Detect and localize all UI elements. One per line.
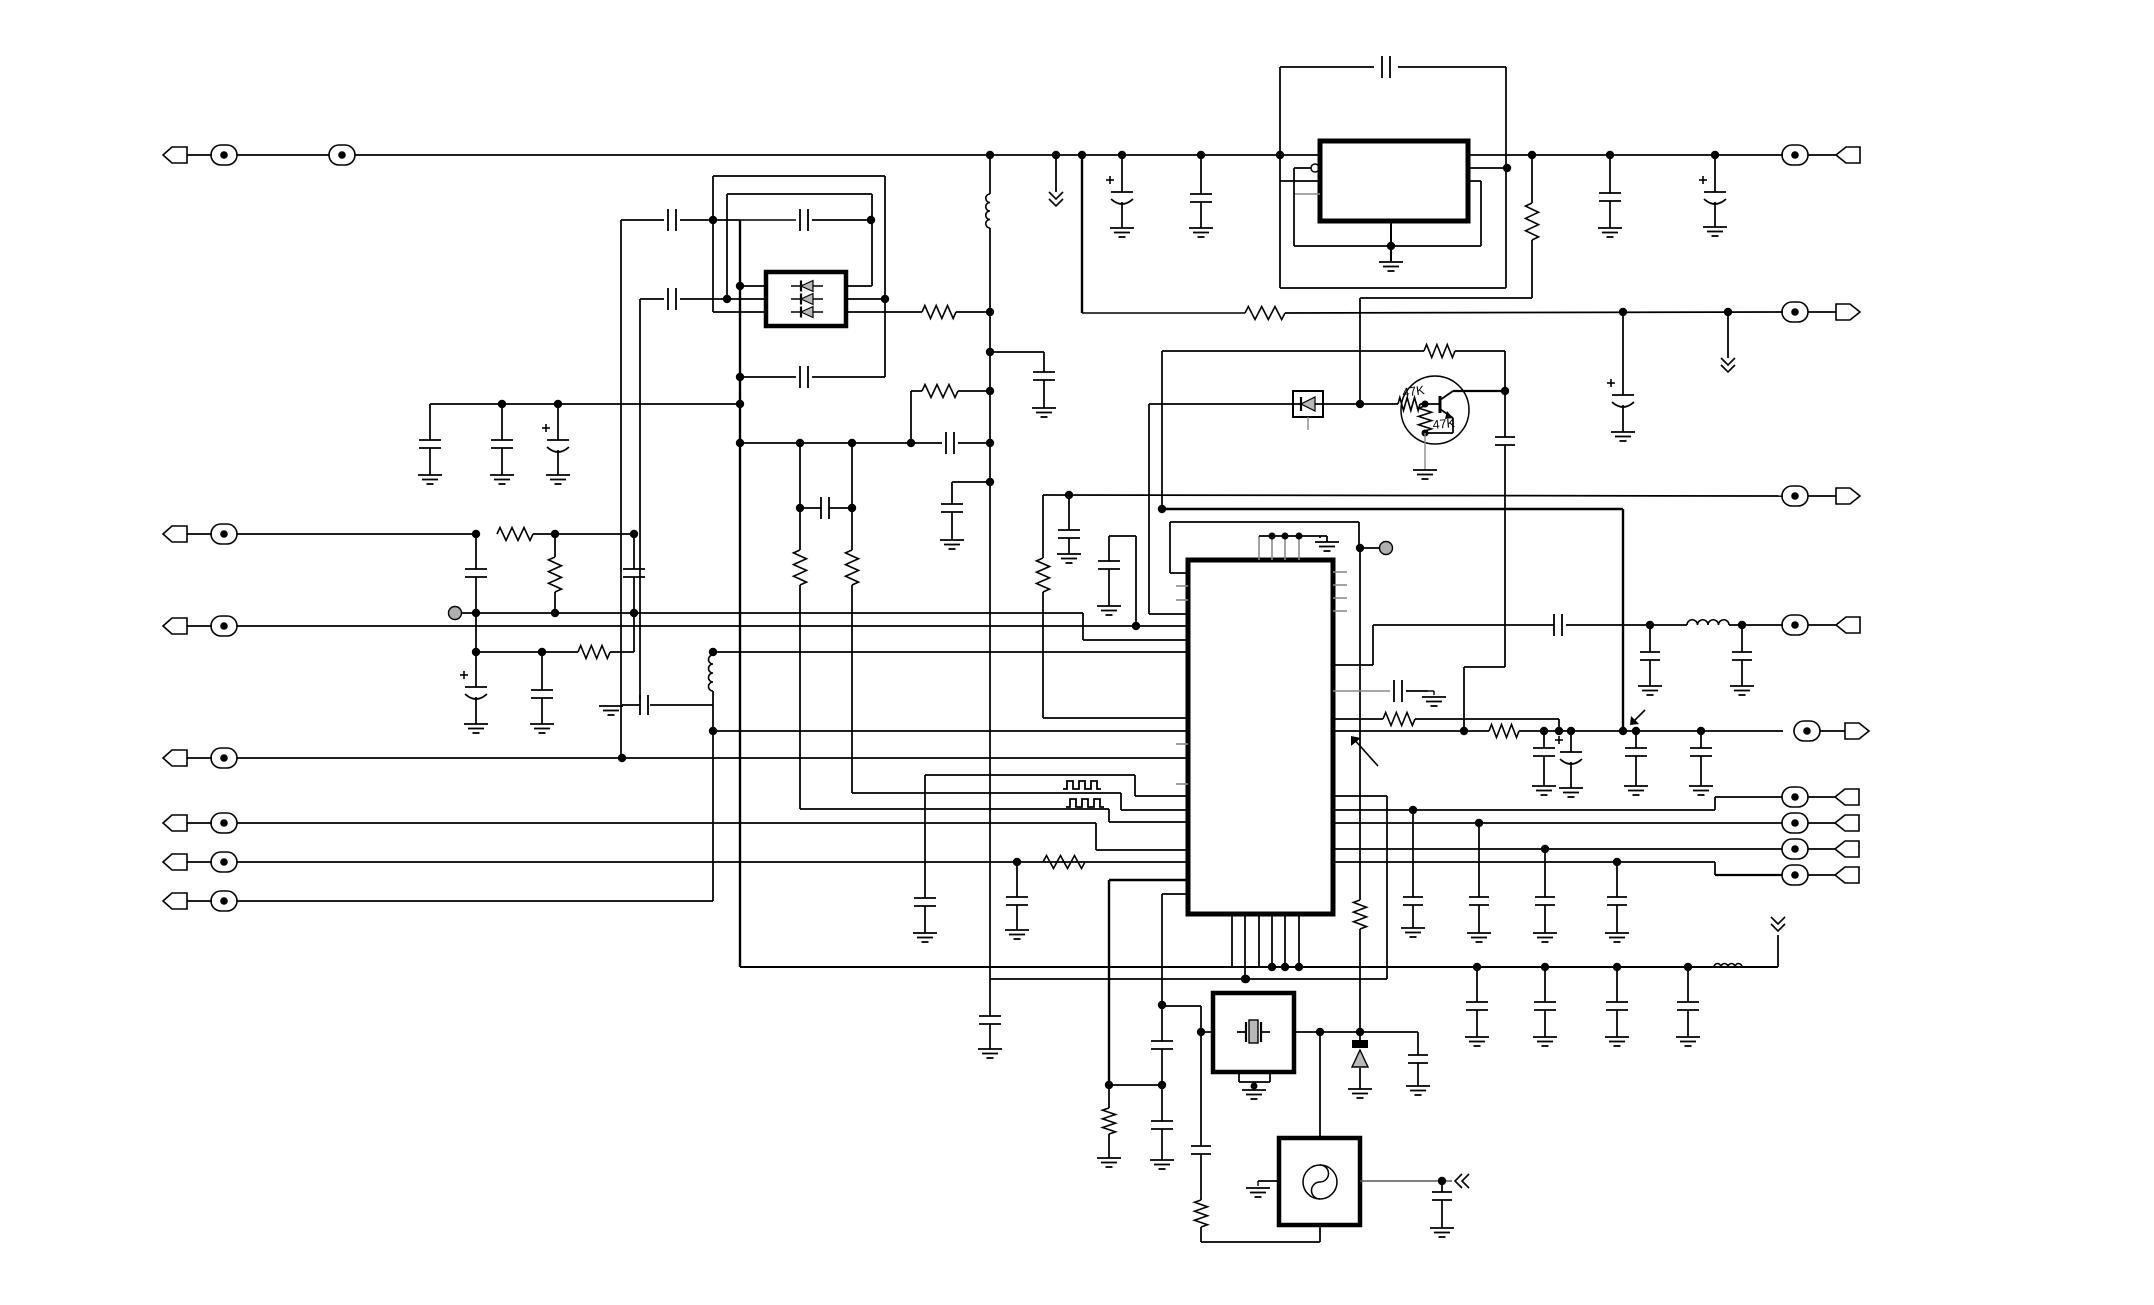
svg-text:47K: 47K (1432, 416, 1456, 432)
